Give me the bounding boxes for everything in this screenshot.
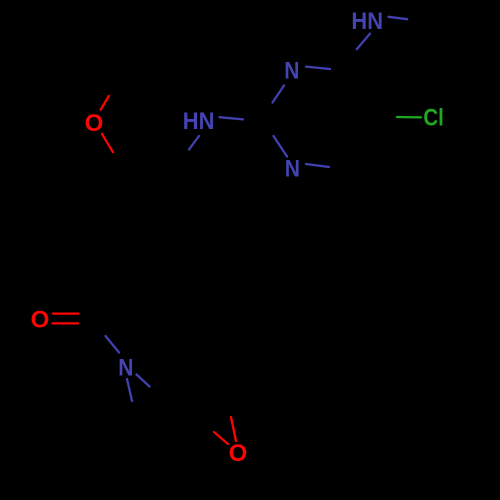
wire bond NH-C6 pyrimidine (nitrogen half) bbox=[357, 34, 370, 50]
wire bond O-C(aryl) (methoxy, oxygen half) bbox=[102, 134, 113, 152]
svg-text:HN: HN bbox=[351, 8, 383, 35]
wire bond NH-CH3 (nitrogen half) bbox=[389, 17, 408, 19]
svg-text:N: N bbox=[118, 355, 133, 382]
wire bond NH-C(aryl) (nitrogen half) bbox=[189, 136, 199, 150]
wire bond N-CH bicyclic (nitrogen half) bbox=[137, 375, 150, 387]
wire bond O-CH epoxide left (oxygen half) bbox=[214, 432, 228, 444]
wire bond N3-C4 (nitrogen half) bbox=[306, 164, 329, 167]
svg-text:Cl: Cl bbox=[423, 105, 443, 132]
svg-text:O: O bbox=[31, 307, 50, 334]
wire double bond C=O lower line (oxygen half) bbox=[53, 322, 79, 324]
svg-text:N: N bbox=[285, 156, 300, 183]
wire bond NH-C2 pyrimidine (nitrogen half) bbox=[220, 117, 244, 119]
wire double bond C=O upper line (oxygen half) bbox=[53, 312, 79, 314]
wire bond O-CH epoxide upper (oxygen half) bbox=[231, 417, 236, 441]
wire bond N3-C2 (nitrogen half) bbox=[274, 136, 288, 157]
wire bond O-CH3 (methoxy, oxygen half) bbox=[101, 96, 109, 110]
wire bond N-CH2 down (nitrogen half) bbox=[127, 379, 132, 401]
svg-text:HN: HN bbox=[183, 108, 215, 135]
svg-text:O: O bbox=[85, 110, 104, 137]
wire bond N1-C2 (nitrogen half) bbox=[273, 86, 285, 103]
wire bond N1-C6 (nitrogen half) bbox=[306, 67, 330, 69]
wire bond Cl-C5 (chlorine half) bbox=[397, 116, 421, 119]
wire bond N-C(=O) (nitrogen half) bbox=[106, 336, 120, 353]
svg-text:O: O bbox=[229, 440, 248, 467]
svg-text:N: N bbox=[284, 57, 299, 84]
